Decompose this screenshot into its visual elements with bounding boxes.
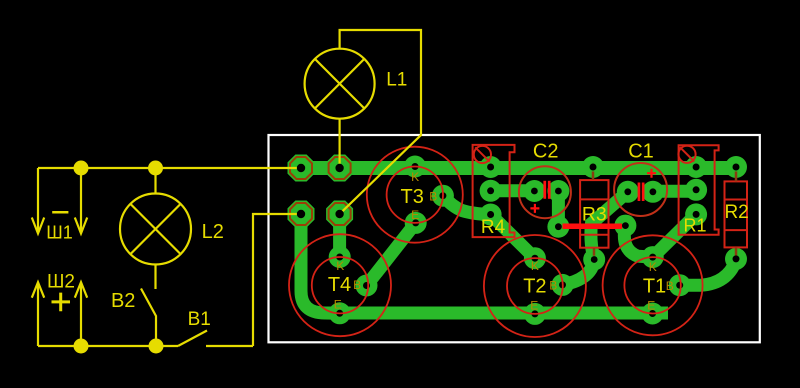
trace R4 pad2 to C2 plus [491,184,535,197]
pin letters T1 [647,260,674,313]
pad C2 plus [523,180,545,202]
trace T3 base to R4 pad3 [443,196,491,215]
pad R3 bottom [583,249,605,271]
resistor R1 outline [679,145,719,235]
wire L1 top route [340,30,421,211]
pad R1 1 [685,156,707,178]
svg-text:B1: B1 [188,309,211,330]
svg-text:R2: R2 [724,202,748,223]
switch B1 [178,331,207,347]
svg-text:T4: T4 [328,274,351,296]
wire bottom horizontal [38,345,178,347]
trace C2 minus to jumper left [552,191,565,227]
trace C1 minus to R3 bottom [591,192,628,260]
svg-text:T1: T1 [643,276,666,298]
wire L1 bottom stub [339,119,341,164]
pin letters T4 [334,259,361,312]
pad T1 B [669,274,691,296]
svg-text:R1: R1 [683,216,706,236]
trace R4 pad3 to T2 collector [491,215,535,259]
trace C1 plus to R1 pad2 [653,185,696,198]
wire bottom right segment [206,345,253,347]
pin letters T2 [530,259,557,313]
trace T3 emitter to T4 base [367,223,416,286]
pad octagon X1.1 [288,155,315,182]
svg-text:B: B [353,278,361,292]
pad jumper left [547,216,569,238]
pad T3 E [405,212,427,234]
wire L2 top stub [154,168,156,194]
trace R1 pad3 to T1 collector [653,214,696,257]
svg-text:T3: T3 [401,186,424,208]
svg-text:E: E [647,299,655,313]
pad T4 K [329,246,351,268]
wire Ш2 right stub [80,284,82,347]
resistor R3 body [580,180,608,248]
trace T1 base to R2 bottom [680,261,736,285]
pin letters T3 [411,170,437,222]
svg-text:K: K [531,259,539,273]
svg-text:K: K [649,260,657,274]
wire top horizontal [38,167,297,169]
trace R3 bottom to T2 base [563,260,595,285]
svg-text:Ш1: Ш1 [46,222,73,242]
transistor T3 circles [367,147,463,243]
trace jumper right to T1 collector [624,226,652,258]
capacitor C1 plus [647,169,656,178]
pad T4 E [329,302,351,324]
pad T2 E [524,303,546,325]
svg-text:E: E [530,299,538,313]
round pads: green disc + black hole [329,156,747,325]
resistor R3 leads [593,172,594,256]
capacitor C2 plates [543,181,546,199]
svg-text:C1: C1 [628,141,654,163]
pad jumper right [614,215,636,237]
lamp L1 [305,49,375,119]
pad T4 B [356,275,378,297]
svg-text:C2: C2 [533,141,559,163]
pad octagon X2.1 [288,201,315,228]
pad R1 2 [685,179,707,201]
resistor R2 body [725,181,748,247]
arrow Ш2 right [75,282,87,298]
minus sign [52,211,68,214]
svg-text:T2: T2 [523,275,546,297]
svg-text:B: B [429,190,437,204]
pad R3 top [582,156,604,178]
junction dot top A [74,161,89,176]
plus sign [52,293,71,312]
jumper wire R3 (red bar) [563,224,623,230]
junction dot bottom B [149,339,164,354]
trace pad to T4 emitter [301,214,340,313]
pad C1 plus [642,181,664,203]
lamp L2 [120,194,191,265]
pad R4 1 [480,156,502,178]
pad T1 K [642,246,664,268]
svg-text:B: B [549,279,557,293]
svg-text:R4: R4 [481,217,506,238]
trace bottom rail [326,307,668,320]
trace top rail [297,161,740,175]
mounting hole right [678,146,695,163]
pad R4 3 [480,204,502,226]
pad R2 top [725,156,747,178]
trace pad to T4 collector [333,214,346,257]
pad octagon X1.2 [326,155,353,182]
switch B2 [141,289,156,347]
mounting hole left [474,146,491,163]
wire Ш1 left stub [37,168,39,232]
pad T2 K [524,247,546,269]
svg-text:E: E [334,298,342,312]
arrow Ш2 left [32,282,44,298]
junction dot bottom A [74,339,89,354]
pad T3 B [432,185,454,207]
capacitor C2 circle [519,166,571,218]
pad octagon X2.2 [326,201,353,228]
wire L2 bottom stub [154,265,156,290]
wire Ш2 left stub [37,284,39,347]
capacitor C1 plates [638,183,641,202]
svg-text:L2: L2 [202,221,224,243]
capacitor C1 circle [614,163,667,216]
arrow Ш1 left [32,218,44,234]
pad C2 minus [547,180,569,202]
wire Ш1 right stub [80,168,82,232]
pad C1 minus [617,181,639,203]
board outline [269,135,760,342]
svg-text:B: B [666,279,674,293]
svg-text:K: K [336,259,344,273]
pad R1 3 [685,203,707,225]
svg-text:Ш2: Ш2 [47,271,75,292]
transistor T1 circles [603,235,703,335]
junction dot top B [148,161,163,176]
transistor T4 circles [289,234,391,336]
svg-text:E: E [411,208,419,222]
resistor R4 outline [473,145,515,237]
pad T3 K [404,156,426,178]
arrow Ш1 right [75,218,87,234]
svg-text:R3: R3 [582,203,607,225]
pad R2 bottom [725,248,747,270]
resistor R2 leads [735,172,738,256]
svg-text:L1: L1 [386,70,407,91]
svg-text:K: K [411,170,419,184]
capacitor C2 plus [530,204,539,213]
svg-text:B2: B2 [111,290,135,312]
pad R4 2 [480,180,502,202]
transistor T2 circles [484,235,586,337]
wire riser to PCB pad [253,214,297,346]
pad T1 E [642,303,664,325]
pad T2 B [552,274,574,296]
